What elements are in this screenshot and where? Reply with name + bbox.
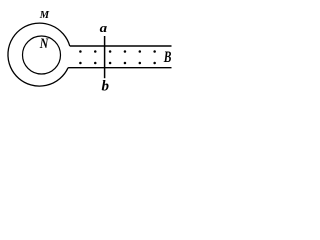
inner circle N: [23, 36, 61, 74]
field dots row 2: [79, 62, 156, 65]
field dots row 1: [79, 50, 156, 53]
outer coil circle M (with gap at right for rails): [8, 23, 70, 86]
svg-text:b: b: [102, 78, 110, 94]
svg-text:a: a: [100, 21, 108, 35]
svg-text:B: B: [163, 49, 172, 66]
wire bottom rail: [68, 67, 171, 69]
rod ab: [104, 36, 106, 78]
svg-text:N: N: [39, 35, 49, 51]
svg-text:M: M: [39, 10, 50, 21]
physics figure: coil M/N with rails, rod ab, field region B: [0, 0, 192, 94]
wire top rail: [70, 45, 172, 47]
